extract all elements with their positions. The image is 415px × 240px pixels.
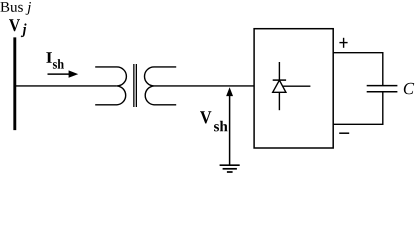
bus bar (Bus j) bbox=[13, 37, 16, 130]
node Bus j label bbox=[0, 2, 31, 15]
wire capacitor to converter - terminal bbox=[333, 92, 383, 125]
voltage Vsh arrow bbox=[226, 87, 233, 165]
wire transformer secondary to converter box bbox=[154, 85, 254, 87]
capacitor C plates bbox=[367, 86, 398, 92]
transformer T secondary winding bbox=[145, 67, 177, 105]
wire converter + terminal to capacitor bbox=[333, 53, 383, 86]
node Vj voltage label bbox=[9, 19, 27, 37]
transformer T primary winding bbox=[95, 67, 126, 105]
wire bus to transformer primary bbox=[14, 85, 117, 87]
+ label bbox=[339, 38, 347, 48]
capacitor C value label bbox=[404, 83, 414, 95]
ground bbox=[220, 165, 240, 172]
thyristor valve inside converter bbox=[273, 62, 311, 110]
current Ish label bbox=[46, 52, 64, 68]
current Ish arrow bbox=[48, 70, 79, 77]
converter box U1 bbox=[254, 29, 333, 148]
transformer core lines bbox=[134, 64, 137, 107]
voltage Vsh label bbox=[200, 111, 227, 131]
- label bbox=[339, 132, 349, 134]
